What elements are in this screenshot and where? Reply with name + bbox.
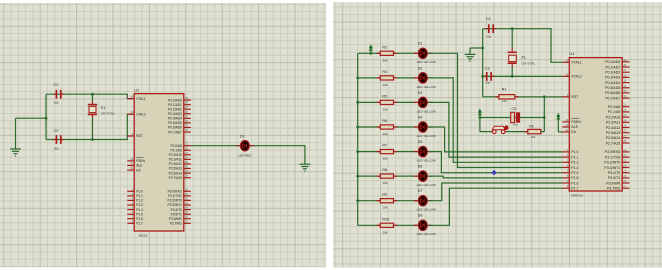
svg-text:R9: R9 — [382, 193, 387, 197]
svg-text:R3: R3 — [382, 45, 387, 49]
svg-text:33p: 33p — [485, 81, 490, 85]
svg-text:P1.5: P1.5 — [571, 176, 578, 180]
svg-text:D3: D3 — [418, 91, 423, 95]
svg-text:D2: D2 — [418, 66, 423, 70]
svg-text:10k: 10k — [531, 135, 536, 139]
svg-text:P3.5/T1: P3.5/T1 — [171, 212, 182, 216]
svg-text:U1: U1 — [134, 87, 139, 92]
svg-text:LED-RED: LED-RED — [238, 153, 252, 157]
svg-text:PSEN: PSEN — [136, 159, 145, 163]
svg-text:XTAL1: XTAL1 — [136, 97, 146, 101]
svg-text:P3.2/INT0: P3.2/INT0 — [604, 161, 620, 165]
svg-text:10k: 10k — [502, 99, 507, 103]
svg-text:P1.0: P1.0 — [571, 150, 578, 154]
svg-text:C2: C2 — [485, 67, 490, 71]
svg-text:R10: R10 — [382, 217, 389, 221]
svg-text:P0.7/AD7: P0.7/AD7 — [168, 130, 182, 134]
svg-text:P2.3/A11: P2.3/A11 — [169, 158, 182, 162]
svg-text:P1.1: P1.1 — [136, 194, 143, 198]
svg-text:LED-YELLOW: LED-YELLOW — [417, 60, 437, 64]
svg-text:10k: 10k — [383, 83, 388, 87]
svg-text:P3.6/WR: P3.6/WR — [169, 217, 182, 221]
svg-text:LED-YELLOW: LED-YELLOW — [417, 183, 437, 187]
svg-text:P1.5: P1.5 — [136, 212, 143, 216]
svg-text:ALE: ALE — [571, 125, 578, 129]
svg-text:P0.1/AD1: P0.1/AD1 — [605, 65, 620, 69]
svg-text:P3.7/RD: P3.7/RD — [607, 187, 621, 191]
svg-text:P0.4/AD4: P0.4/AD4 — [605, 81, 620, 85]
svg-text:P3.7/RD: P3.7/RD — [170, 222, 183, 226]
svg-text:P2.0/A8: P2.0/A8 — [170, 144, 182, 148]
svg-text:10k: 10k — [383, 132, 388, 136]
svg-text:P3.2/INT0: P3.2/INT0 — [167, 199, 182, 203]
svg-text:P0.6/AD6: P0.6/AD6 — [605, 91, 620, 95]
svg-text:30p: 30p — [54, 146, 59, 150]
svg-text:LED-YELLOW: LED-YELLOW — [417, 85, 437, 89]
svg-text:P0.5/AD5: P0.5/AD5 — [168, 121, 182, 125]
svg-text:10k: 10k — [383, 107, 388, 111]
svg-text:R4: R4 — [382, 70, 387, 74]
svg-text:P2.3/A11: P2.3/A11 — [606, 121, 620, 125]
svg-text:LED-YELLOW: LED-YELLOW — [417, 159, 437, 163]
svg-text:P1.2: P1.2 — [136, 199, 143, 203]
svg-text:R7: R7 — [382, 144, 387, 148]
svg-text:P3.1/TXD: P3.1/TXD — [605, 155, 621, 159]
svg-text:P2.6/A14: P2.6/A14 — [606, 136, 620, 140]
svg-text:U1: U1 — [569, 51, 575, 56]
svg-text:P0.2/AD2: P0.2/AD2 — [605, 71, 620, 75]
svg-text:P0.6/AD6: P0.6/AD6 — [168, 126, 182, 130]
svg-text:P3.5/T1: P3.5/T1 — [608, 176, 620, 180]
svg-text:P3.6/WR: P3.6/WR — [606, 181, 620, 185]
svg-text:P0.5/AD5: P0.5/AD5 — [605, 86, 620, 90]
svg-text:CRYSTAL: CRYSTAL — [101, 112, 115, 116]
svg-text:P0.0/AD0: P0.0/AD0 — [168, 98, 182, 102]
svg-text:P2.6/A14: P2.6/A14 — [169, 171, 182, 175]
svg-text:P1.4: P1.4 — [136, 208, 143, 212]
svg-text:LED-YELLOW: LED-YELLOW — [417, 109, 437, 113]
svg-text:LED-YELLOW: LED-YELLOW — [417, 232, 437, 236]
svg-text:30p: 30p — [54, 101, 59, 105]
svg-text:D8: D8 — [418, 214, 423, 218]
svg-text:X1: X1 — [521, 55, 526, 59]
svg-text:D5: D5 — [418, 140, 423, 144]
svg-text:XTAL1: XTAL1 — [571, 61, 581, 65]
svg-text:C1: C1 — [54, 83, 59, 87]
svg-text:10k: 10k — [383, 230, 388, 234]
svg-text:EA: EA — [571, 130, 576, 134]
svg-text:P1.4: P1.4 — [571, 171, 578, 175]
svg-text:R8: R8 — [382, 168, 387, 172]
svg-text:R2: R2 — [529, 124, 534, 128]
svg-text:R5: R5 — [382, 94, 387, 98]
svg-text:P3.0/RXD: P3.0/RXD — [605, 150, 621, 154]
svg-text:P0.4/AD4: P0.4/AD4 — [168, 117, 182, 121]
svg-text:P1.1: P1.1 — [571, 155, 578, 159]
svg-text:ALE: ALE — [136, 164, 142, 168]
svg-text:AT89C51: AT89C51 — [571, 193, 584, 197]
svg-text:P0.7/AD7: P0.7/AD7 — [605, 96, 620, 100]
svg-text:P3.4/T0: P3.4/T0 — [171, 208, 182, 212]
svg-text:P2.2/A10: P2.2/A10 — [169, 153, 182, 157]
svg-text:10k: 10k — [383, 206, 388, 210]
svg-text:C1: C1 — [486, 17, 491, 21]
svg-text:PSEN: PSEN — [571, 120, 581, 124]
svg-text:P2.5/A13: P2.5/A13 — [606, 131, 620, 135]
svg-text:P2.7/A15: P2.7/A15 — [169, 176, 182, 180]
svg-text:P2.4/A12: P2.4/A12 — [169, 162, 182, 166]
svg-text:P1.7: P1.7 — [571, 187, 578, 191]
svg-text:R1: R1 — [502, 88, 507, 92]
svg-text:X1: X1 — [101, 106, 106, 110]
svg-text:D7: D7 — [418, 189, 423, 193]
svg-text:RST: RST — [571, 95, 579, 99]
svg-text:P1.6: P1.6 — [571, 181, 578, 185]
svg-text:LED-YELLOW: LED-YELLOW — [417, 208, 437, 212]
svg-text:10k: 10k — [383, 157, 388, 161]
svg-text:10k: 10k — [383, 181, 388, 185]
svg-text:P0.2/AD2: P0.2/AD2 — [168, 107, 182, 111]
svg-text:P1.3: P1.3 — [136, 203, 143, 207]
svg-text:P2.1/A9: P2.1/A9 — [170, 149, 182, 153]
svg-text:CRYSTAL: CRYSTAL — [521, 62, 535, 66]
svg-text:P2.4/A12: P2.4/A12 — [606, 126, 620, 130]
svg-text:P2.5/A13: P2.5/A13 — [169, 167, 182, 171]
svg-text:RST: RST — [136, 134, 142, 138]
svg-text:D4: D4 — [418, 115, 423, 119]
svg-text:10u: 10u — [513, 123, 518, 127]
svg-text:P0.3/AD3: P0.3/AD3 — [605, 76, 620, 80]
svg-text:P3.3/INT1: P3.3/INT1 — [604, 166, 620, 170]
svg-text:80C51: 80C51 — [139, 234, 148, 238]
svg-text:R6: R6 — [382, 119, 387, 123]
svg-text:LED-YELLOW: LED-YELLOW — [417, 134, 437, 138]
svg-text:P2.0/A8: P2.0/A8 — [608, 105, 621, 109]
svg-text:P3.1/TXD: P3.1/TXD — [168, 194, 183, 198]
svg-text:P0.1/AD1: P0.1/AD1 — [168, 103, 182, 107]
svg-text:D1: D1 — [418, 42, 423, 46]
svg-text:P1.7: P1.7 — [136, 222, 143, 226]
svg-text:P0.3/AD3: P0.3/AD3 — [168, 112, 182, 116]
svg-text:D1: D1 — [240, 135, 245, 139]
svg-text:XTAL2: XTAL2 — [571, 75, 581, 79]
svg-text:10k: 10k — [383, 58, 388, 62]
svg-text:C3: C3 — [511, 107, 516, 111]
svg-text:P0.0/AD0: P0.0/AD0 — [605, 60, 620, 64]
svg-text:P2.2/A10: P2.2/A10 — [606, 115, 620, 119]
svg-text:P2.1/A9: P2.1/A9 — [608, 110, 621, 114]
svg-text:P1.3: P1.3 — [571, 166, 578, 170]
svg-text:D6: D6 — [418, 165, 423, 169]
svg-text:P1.0: P1.0 — [136, 190, 143, 194]
svg-text:33p: 33p — [486, 35, 491, 39]
svg-text:P2.7/A15: P2.7/A15 — [606, 141, 620, 145]
svg-text:P3.3/INT1: P3.3/INT1 — [167, 203, 182, 207]
svg-text:P1.2: P1.2 — [571, 161, 578, 165]
svg-text:C2: C2 — [54, 129, 59, 133]
svg-text:P1.6: P1.6 — [136, 217, 143, 221]
svg-text:P3.0/RXD: P3.0/RXD — [168, 190, 183, 194]
svg-text:P3.4/T0: P3.4/T0 — [608, 171, 620, 175]
svg-text:XTAL2: XTAL2 — [136, 112, 146, 116]
